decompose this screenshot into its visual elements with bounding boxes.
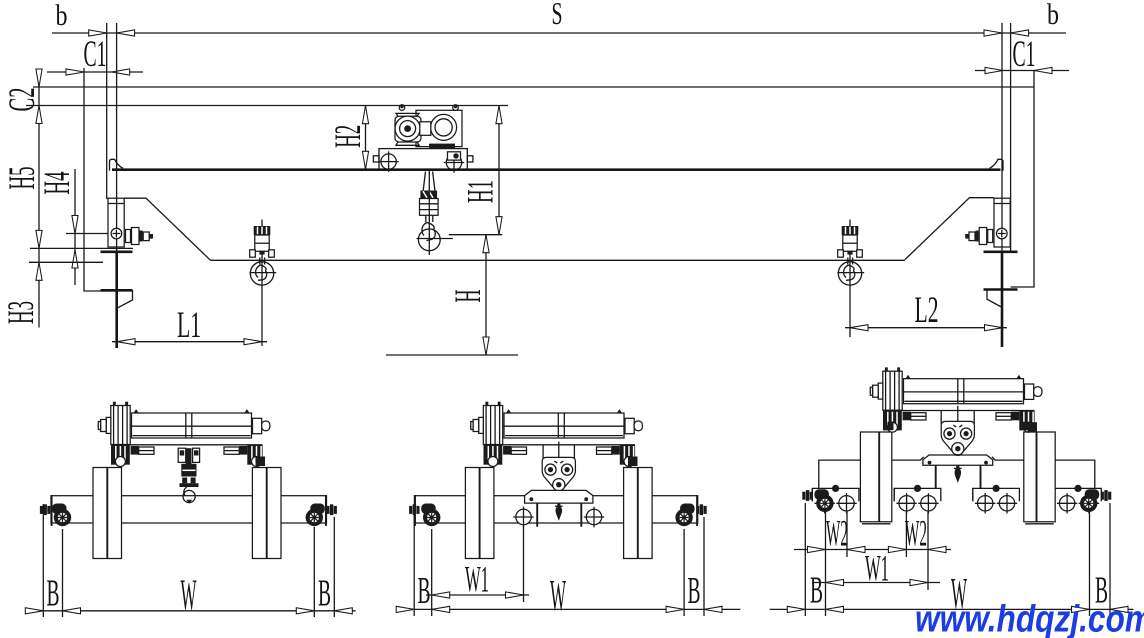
- hook level reference line: [449, 234, 503, 236]
- girder end taper left: [124, 198, 210, 260]
- svg-text:W2: W2: [826, 514, 848, 555]
- svg-text:W1: W1: [465, 560, 489, 601]
- hanger bolts view3: [888, 422, 894, 431]
- svg-text:L2: L2: [915, 290, 939, 331]
- dim H2: [328, 106, 369, 170]
- hook hanger view1: [178, 448, 199, 503]
- dims view3 W2: [794, 514, 951, 555]
- runway hanger web left: [101, 252, 133, 348]
- end carriage beam view1: [51, 495, 327, 526]
- extension lines view3: [805, 503, 1110, 616]
- small hook trolley left (L1 position): [249, 220, 276, 347]
- svg-text:b: b: [1047, 0, 1059, 31]
- spreader plate view2: [525, 490, 593, 503]
- svg-text:C1: C1: [1013, 34, 1036, 75]
- svg-text:C2: C2: [2, 88, 43, 112]
- dims view3 main: [770, 569, 1134, 618]
- dim H: [448, 235, 489, 355]
- travel wheel motor left view2: [409, 504, 440, 527]
- extension lines view2: [414, 504, 704, 616]
- svg-text:L1: L1: [177, 305, 201, 346]
- dims view2: [396, 560, 740, 621]
- bogie inner left view3: [894, 485, 941, 514]
- girder bottom flange: [211, 259, 906, 261]
- girder column right view2: [624, 468, 653, 559]
- main hook block and ropes (top view): [417, 171, 453, 255]
- hoist trolley (top view): [373, 105, 473, 173]
- dim line S and b (top): [52, 30, 1066, 36]
- hanging wheels view2: [513, 507, 533, 527]
- dim vertical line at x=39 (C2/H5/H3): [36, 69, 42, 328]
- hoist ropes view2: [543, 442, 574, 461]
- bogie outer right view3: [1055, 485, 1102, 514]
- hanger arms view2: [537, 503, 581, 527]
- left runway rail flange edges: [106, 23, 108, 199]
- end carriage bracket right: [965, 198, 1017, 252]
- svg-text:W: W: [550, 571, 566, 620]
- svg-text:b: b: [56, 0, 68, 32]
- hoist ropes view3: [941, 406, 974, 428]
- hoist side view2: [470, 402, 643, 467]
- girder end taper right: [905, 198, 994, 260]
- bogie inner right view3: [973, 485, 1020, 514]
- svg-text:H2: H2: [328, 125, 369, 148]
- equalizer frame view3: [819, 457, 1095, 489]
- bogie outer left view3: [812, 485, 859, 514]
- girder column right view3: [1024, 432, 1055, 524]
- left C1 extension / hanger outline: [84, 68, 117, 291]
- girder column left view1: [93, 468, 122, 559]
- travel wheel motor right view2: [675, 504, 706, 527]
- svg-text:H: H: [448, 290, 489, 303]
- hoist side view1: [98, 402, 271, 467]
- dim L2: [845, 290, 1007, 331]
- hook dart view2: [556, 503, 563, 521]
- travel wheel motor right view1: [306, 504, 337, 527]
- svg-text:H1: H1: [461, 180, 502, 203]
- dim H4 vertical line: [29, 169, 133, 285]
- spreader plate view3: [923, 455, 993, 465]
- hoist side view3: [870, 367, 1043, 432]
- floor line: [386, 354, 518, 356]
- svg-text:C1: C1: [84, 34, 107, 75]
- svg-text:B: B: [47, 573, 60, 615]
- sheave block view3: [941, 421, 974, 455]
- svg-text:B: B: [318, 573, 331, 615]
- sheave block view2: [542, 457, 575, 491]
- svg-text:W2: W2: [905, 514, 927, 555]
- girder column left view3: [860, 432, 891, 524]
- svg-text:www.hdqzj.com: www.hdqzj.com: [915, 599, 1144, 638]
- svg-text:H4: H4: [37, 172, 78, 195]
- travel wheel motor left view1: [40, 504, 71, 527]
- hanger arms view3: [936, 465, 981, 488]
- girder top flange: [110, 159, 1004, 171]
- girder column left view2: [465, 468, 494, 559]
- extension lines view1: [43, 504, 334, 617]
- svg-text:S: S: [552, 0, 563, 31]
- svg-text:H3: H3: [1, 301, 42, 324]
- girder column right view1: [252, 468, 281, 559]
- svg-text:B: B: [810, 570, 823, 612]
- svg-text:W: W: [181, 571, 197, 620]
- svg-text:B: B: [688, 570, 701, 612]
- runway hanger web right: [984, 252, 1018, 347]
- end carriage beam view2: [414, 495, 697, 526]
- ceiling line: [33, 86, 1034, 88]
- small hook trolley right (L2 position): [837, 220, 864, 338]
- dim C1 right: [975, 34, 1069, 75]
- dims view3 W1: [812, 549, 940, 590]
- upper reference line C2 bottom: [26, 105, 508, 107]
- right ceiling edge / C1 extension: [1011, 71, 1034, 288]
- svg-text:B: B: [418, 570, 431, 612]
- dim H1: [461, 106, 502, 235]
- dims view1: [25, 571, 355, 620]
- end carriage bracket left: [101, 198, 154, 252]
- hook dart view3: [955, 465, 962, 483]
- right runway rail flange edges: [1001, 23, 1003, 199]
- dim C1 left: [47, 34, 143, 75]
- dim L1: [112, 305, 267, 346]
- svg-text:W1: W1: [865, 549, 889, 590]
